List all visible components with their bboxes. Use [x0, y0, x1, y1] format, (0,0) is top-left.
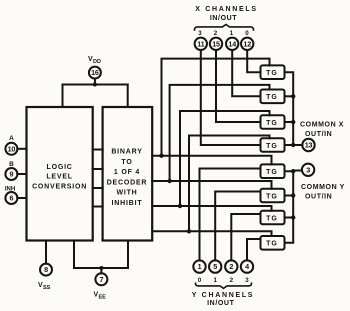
pin circle 5 Y1	[209, 260, 221, 272]
svg-text:Y CHANNELS: Y CHANNELS	[192, 292, 254, 299]
box U1 logic level conversion	[27, 107, 93, 241]
bracket Y channels	[196, 283, 252, 288]
pin circle 12 X0	[241, 38, 253, 50]
TG box TG3	[261, 115, 285, 129]
svg-text:TO: TO	[121, 159, 132, 166]
pin circle 2 Y2	[225, 260, 237, 272]
svg-text:BINARY: BINARY	[111, 149, 142, 156]
svg-text:IN/OUT: IN/OUT	[210, 15, 237, 22]
pin circle 10 A	[5, 143, 17, 155]
TG box TG1	[261, 65, 285, 79]
svg-text:OUT/IN: OUT/IN	[305, 194, 332, 201]
svg-text:11: 11	[197, 39, 204, 48]
wire common Y bus	[285, 171, 294, 243]
wire U1-U2 rung 2	[93, 168, 103, 170]
wire channel Y1 pin5 to TG6	[215, 192, 260, 261]
svg-text:TG: TG	[266, 70, 278, 77]
svg-text:COMMON X: COMMON X	[300, 122, 344, 129]
junction dot out0	[159, 154, 163, 158]
wire channel X0 pin12 to TG1	[247, 50, 260, 72]
wire TG5 out to pin3	[293, 170, 302, 172]
svg-text:TG: TG	[266, 169, 278, 176]
junction dot out2	[178, 204, 182, 208]
junction dot X bus TG4	[291, 143, 295, 147]
svg-text:INH: INH	[5, 187, 15, 193]
junction dot Y bus TG7	[291, 215, 295, 219]
pin circle 13 common X	[302, 139, 314, 151]
TG box TG6	[261, 189, 285, 203]
TG box TG4	[261, 138, 285, 152]
svg-text:3: 3	[306, 165, 310, 174]
junction dot out3	[187, 229, 191, 233]
wire channel X2 pin15 to TG3	[216, 50, 261, 122]
svg-text:OUT/IN: OUT/IN	[305, 131, 332, 138]
TG box TG5	[261, 164, 285, 178]
wire common X bus	[285, 72, 294, 145]
svg-text:0: 0	[198, 277, 202, 284]
junction dot X bus TG2	[291, 94, 295, 98]
wire input B	[17, 173, 26, 175]
wire U1-U2 rung 4	[93, 206, 103, 208]
svg-text:LEVEL: LEVEL	[46, 174, 73, 181]
wire TG4 out to pin13	[285, 144, 303, 146]
svg-text:COMMON Y: COMMON Y	[301, 184, 345, 191]
svg-text:X CHANNELS: X CHANNELS	[195, 6, 258, 13]
svg-text:LOGIC: LOGIC	[47, 164, 73, 171]
svg-text:12: 12	[243, 39, 251, 48]
svg-text:1 OF 4: 1 OF 4	[114, 169, 140, 176]
wire control branch TG3	[180, 111, 270, 206]
svg-text:1: 1	[198, 262, 202, 271]
svg-text:SS: SS	[43, 285, 51, 291]
pin circle 16 VDD	[89, 67, 101, 79]
wire channel Y0 pin1 to TG5	[200, 169, 261, 261]
junction dot out1	[167, 179, 171, 183]
svg-text:2: 2	[229, 262, 233, 271]
wire decoder out3 to TG8 top	[152, 231, 271, 236]
svg-text:7: 7	[99, 275, 103, 284]
svg-text:2: 2	[230, 277, 234, 284]
svg-text:9: 9	[9, 170, 13, 179]
svg-text:EE: EE	[99, 295, 107, 301]
wire decoder out1 to TG6 top	[152, 181, 271, 189]
svg-text:5: 5	[213, 262, 217, 271]
svg-text:TG: TG	[266, 241, 278, 248]
svg-text:TG: TG	[266, 193, 278, 200]
pin circle 9 B	[5, 168, 17, 180]
TG box TG2	[261, 90, 285, 104]
svg-text:15: 15	[212, 39, 220, 48]
svg-text:3: 3	[198, 30, 202, 37]
pin circle 3 common Y	[302, 164, 314, 176]
svg-text:16: 16	[91, 68, 99, 77]
svg-text:1: 1	[230, 30, 234, 37]
junction dot VEE	[99, 266, 103, 270]
wire TG6 out	[285, 195, 294, 197]
junction dot Y bus TG5	[291, 169, 295, 173]
svg-text:13: 13	[305, 141, 313, 150]
pin circle 8 VSS	[40, 264, 52, 276]
TG box TG8	[261, 236, 285, 250]
wire decoder out0 to TG5 top	[152, 156, 271, 165]
wire VEE left drop	[74, 241, 128, 269]
svg-text:2: 2	[214, 30, 218, 37]
bracket X channels	[195, 25, 254, 30]
TG box TG7	[261, 211, 285, 225]
wire channel Y3 pin4 to TG8	[247, 239, 261, 260]
pin circle 6 INH	[5, 192, 17, 204]
svg-text:14: 14	[228, 39, 236, 48]
svg-text:4: 4	[245, 262, 249, 271]
wire U1-U2 rung 3	[93, 187, 103, 189]
svg-text:6: 6	[9, 194, 13, 203]
svg-text:0: 0	[245, 30, 249, 37]
svg-text:DECODER: DECODER	[107, 179, 148, 186]
svg-text:TG: TG	[266, 215, 278, 222]
wire channel X3 pin11 to TG4	[201, 50, 261, 145]
svg-text:10: 10	[8, 144, 16, 153]
svg-text:TG: TG	[266, 143, 278, 150]
wire control branch TG4	[189, 136, 270, 232]
wire decoder out2 to TG7 top	[152, 206, 271, 211]
pin circle 11 X3	[195, 38, 207, 50]
wire channel X1 pin14 to TG2	[232, 50, 260, 96]
wire TG7 out	[285, 217, 294, 219]
svg-text:INHIBIT: INHIBIT	[112, 200, 143, 207]
junction dot X bus TG3	[291, 120, 295, 124]
pin circle 7 VEE	[95, 273, 107, 285]
junction dot Y bus TG6	[291, 193, 295, 197]
svg-text:CONVERSION: CONVERSION	[32, 183, 87, 190]
svg-text:TG: TG	[266, 94, 278, 101]
svg-text:1: 1	[213, 277, 217, 284]
wire VDD left drop to U1	[62, 85, 64, 108]
wire channel Y2 pin2 to TG7	[231, 214, 260, 260]
svg-text:B: B	[9, 161, 14, 168]
svg-text:TG: TG	[266, 120, 278, 127]
pin circle 14 X1	[226, 38, 238, 50]
wire TG3 out	[285, 121, 294, 123]
svg-text:A: A	[9, 135, 14, 142]
svg-text:DD: DD	[93, 59, 101, 65]
wire TG2 out	[285, 95, 294, 97]
box U2 binary 1-of-4 decoder	[103, 107, 153, 241]
wire VDD rail	[63, 84, 128, 86]
wire VDD stem	[94, 79, 96, 85]
wire control branch TG2	[170, 85, 270, 181]
junction dot VDD	[93, 83, 97, 87]
svg-text:IN/OUT: IN/OUT	[207, 300, 234, 307]
svg-text:WITH: WITH	[116, 190, 137, 197]
wire VSS drop	[45, 241, 47, 264]
wire VDD right drop to U2	[127, 85, 129, 108]
wire U1-U2 rung 1	[93, 149, 103, 151]
svg-text:3: 3	[245, 277, 249, 284]
wire control branch TG1	[162, 59, 270, 156]
pin circle 4 Y3	[241, 260, 253, 272]
wire VEE stem	[100, 268, 102, 273]
svg-text:8: 8	[44, 265, 48, 274]
wire input INH	[17, 197, 26, 199]
pin circle 1 Y0	[193, 260, 205, 272]
wire input A	[17, 148, 26, 150]
pin circle 15 X2	[210, 38, 222, 50]
